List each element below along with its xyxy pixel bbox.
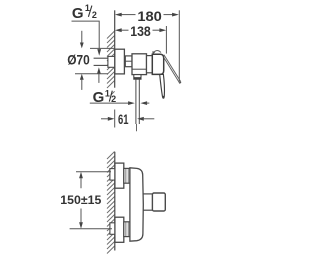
lever open position upper line [164, 55, 181, 82]
svg-text:1: 1 [105, 88, 110, 98]
stem of opposing arrow [98, 74, 100, 83]
dimension line 138 [122, 29, 160, 31]
arrowhead 138 right [159, 28, 166, 32]
dimension 150: lower stem [80, 209, 82, 223]
dimension 150+-15: bottom extension line [70, 228, 112, 230]
outlet pipe left line [135, 79, 137, 124]
lever open position tip [179, 82, 181, 83]
arrowhead O70 down [80, 43, 84, 49]
outlet centre extension line (for 61) [136, 124, 138, 131]
dimension 61: wall extension line [114, 110, 116, 128]
leader line from G 1/2 label to union nut [72, 21, 100, 49]
wall hatching (top view) [107, 31, 115, 95]
opposing arrowhead pointing left at outlet pipe [140, 101, 147, 105]
svg-text:1: 1 [85, 3, 90, 13]
top supply elbow in wall [110, 169, 115, 181]
leader arrowhead pointing right at outlet pipe [128, 101, 135, 105]
fraction slash of G 1/2 (second) [109, 91, 112, 102]
hose outlet nipple G 1/2 [134, 75, 141, 80]
dimension line 180 [122, 14, 173, 16]
svg-text:Ø70: Ø70 [67, 52, 90, 68]
outlet pipe right line [138, 79, 140, 124]
cartridge ring (top view) [147, 56, 153, 73]
svg-text:138: 138 [130, 24, 151, 40]
wall hatching (lower view) [107, 152, 115, 254]
bottom union nut facet line 1 [125, 222, 127, 237]
wall anchor nut on pipe [108, 56, 115, 67]
dimension 150: upper stem [80, 178, 82, 188]
arrowhead 150 up [79, 172, 83, 178]
dimension O70: bottom extension line [75, 73, 108, 75]
arrowhead O70 up [80, 74, 84, 80]
leader underline from second G 1/2 to outlet pipe [90, 102, 129, 104]
swing arc arrowhead [152, 51, 155, 54]
arrowhead 61 right (pointing left) [137, 117, 144, 121]
top union nut facet line 1 [125, 168, 127, 183]
leader arrowhead pointing down at union nut [97, 49, 101, 56]
dimension O70: upper stem [81, 31, 83, 43]
dimension O70: lower stem [81, 80, 83, 90]
arrowhead 61 left (pointing right) [108, 117, 115, 121]
bottom escutcheon (lower view) [115, 217, 124, 242]
handle neck top line (lower view) [143, 193, 152, 195]
supply pipe in wall (top view), lower line [94, 64, 109, 66]
nipple shoulder [134, 77, 141, 79]
arrowhead 180 right [172, 13, 179, 17]
bottom union nut facet line 2 [127, 222, 129, 237]
thread label G 1/2 (inlet, top-left) [72, 3, 97, 22]
top escutcheon (lower view) [115, 163, 124, 188]
right extension line for 138 (handle cap face) [165, 26, 167, 54]
arrowhead 180 left [115, 13, 122, 17]
mixer body parting line [132, 68, 147, 70]
svg-text:G: G [72, 5, 84, 22]
lever blade tip [162, 96, 164, 99]
handle cap (top view) [152, 54, 163, 74]
arrowhead 138 left [115, 28, 122, 32]
right extension line for 180 (lever swing tip) [178, 10, 180, 82]
thread label G 1/2 (outlet, second) [93, 88, 117, 106]
supply pipe in wall (top view), upper line [94, 57, 109, 59]
bottom union nut (lower view) [124, 222, 130, 237]
arrowhead 150 down [79, 222, 83, 228]
dimension O70: top extension line [90, 47, 115, 49]
mixer body capsule (lower view) [130, 168, 143, 241]
tail of opposing arrow [146, 102, 149, 104]
fraction slash of G 1/2 (top-left) [88, 6, 92, 17]
bottom supply elbow in wall [110, 223, 115, 235]
lever swing arc [153, 51, 161, 54]
svg-text:2: 2 [92, 10, 97, 20]
union nut facet line [125, 60, 132, 62]
dimension 150+-15: top extension line [76, 171, 111, 173]
top union nut (lower view) [124, 168, 130, 183]
escutcheon O70 (top view profile) [115, 49, 125, 74]
opposing arrowhead pointing up at union nut underside [97, 67, 101, 74]
top union nut facet line 2 [127, 168, 129, 183]
svg-text:61: 61 [118, 112, 129, 128]
wall face line / left extension line (top view) [114, 10, 116, 87]
handle neck bottom line (lower view) [143, 209, 152, 211]
handle end cap (lower view) [152, 193, 165, 211]
lever open position lower line [164, 58, 180, 83]
svg-text:180: 180 [137, 9, 162, 25]
wall face line (lower view) [114, 152, 116, 251]
mixer body (top view) [132, 54, 147, 75]
dimension 61: right tail [144, 118, 155, 120]
svg-text:150±15: 150±15 [60, 193, 101, 207]
dimension 61: left tail [101, 118, 108, 120]
union nut (top view) [125, 56, 132, 67]
lever blade closed position (hanging down) [160, 74, 165, 97]
